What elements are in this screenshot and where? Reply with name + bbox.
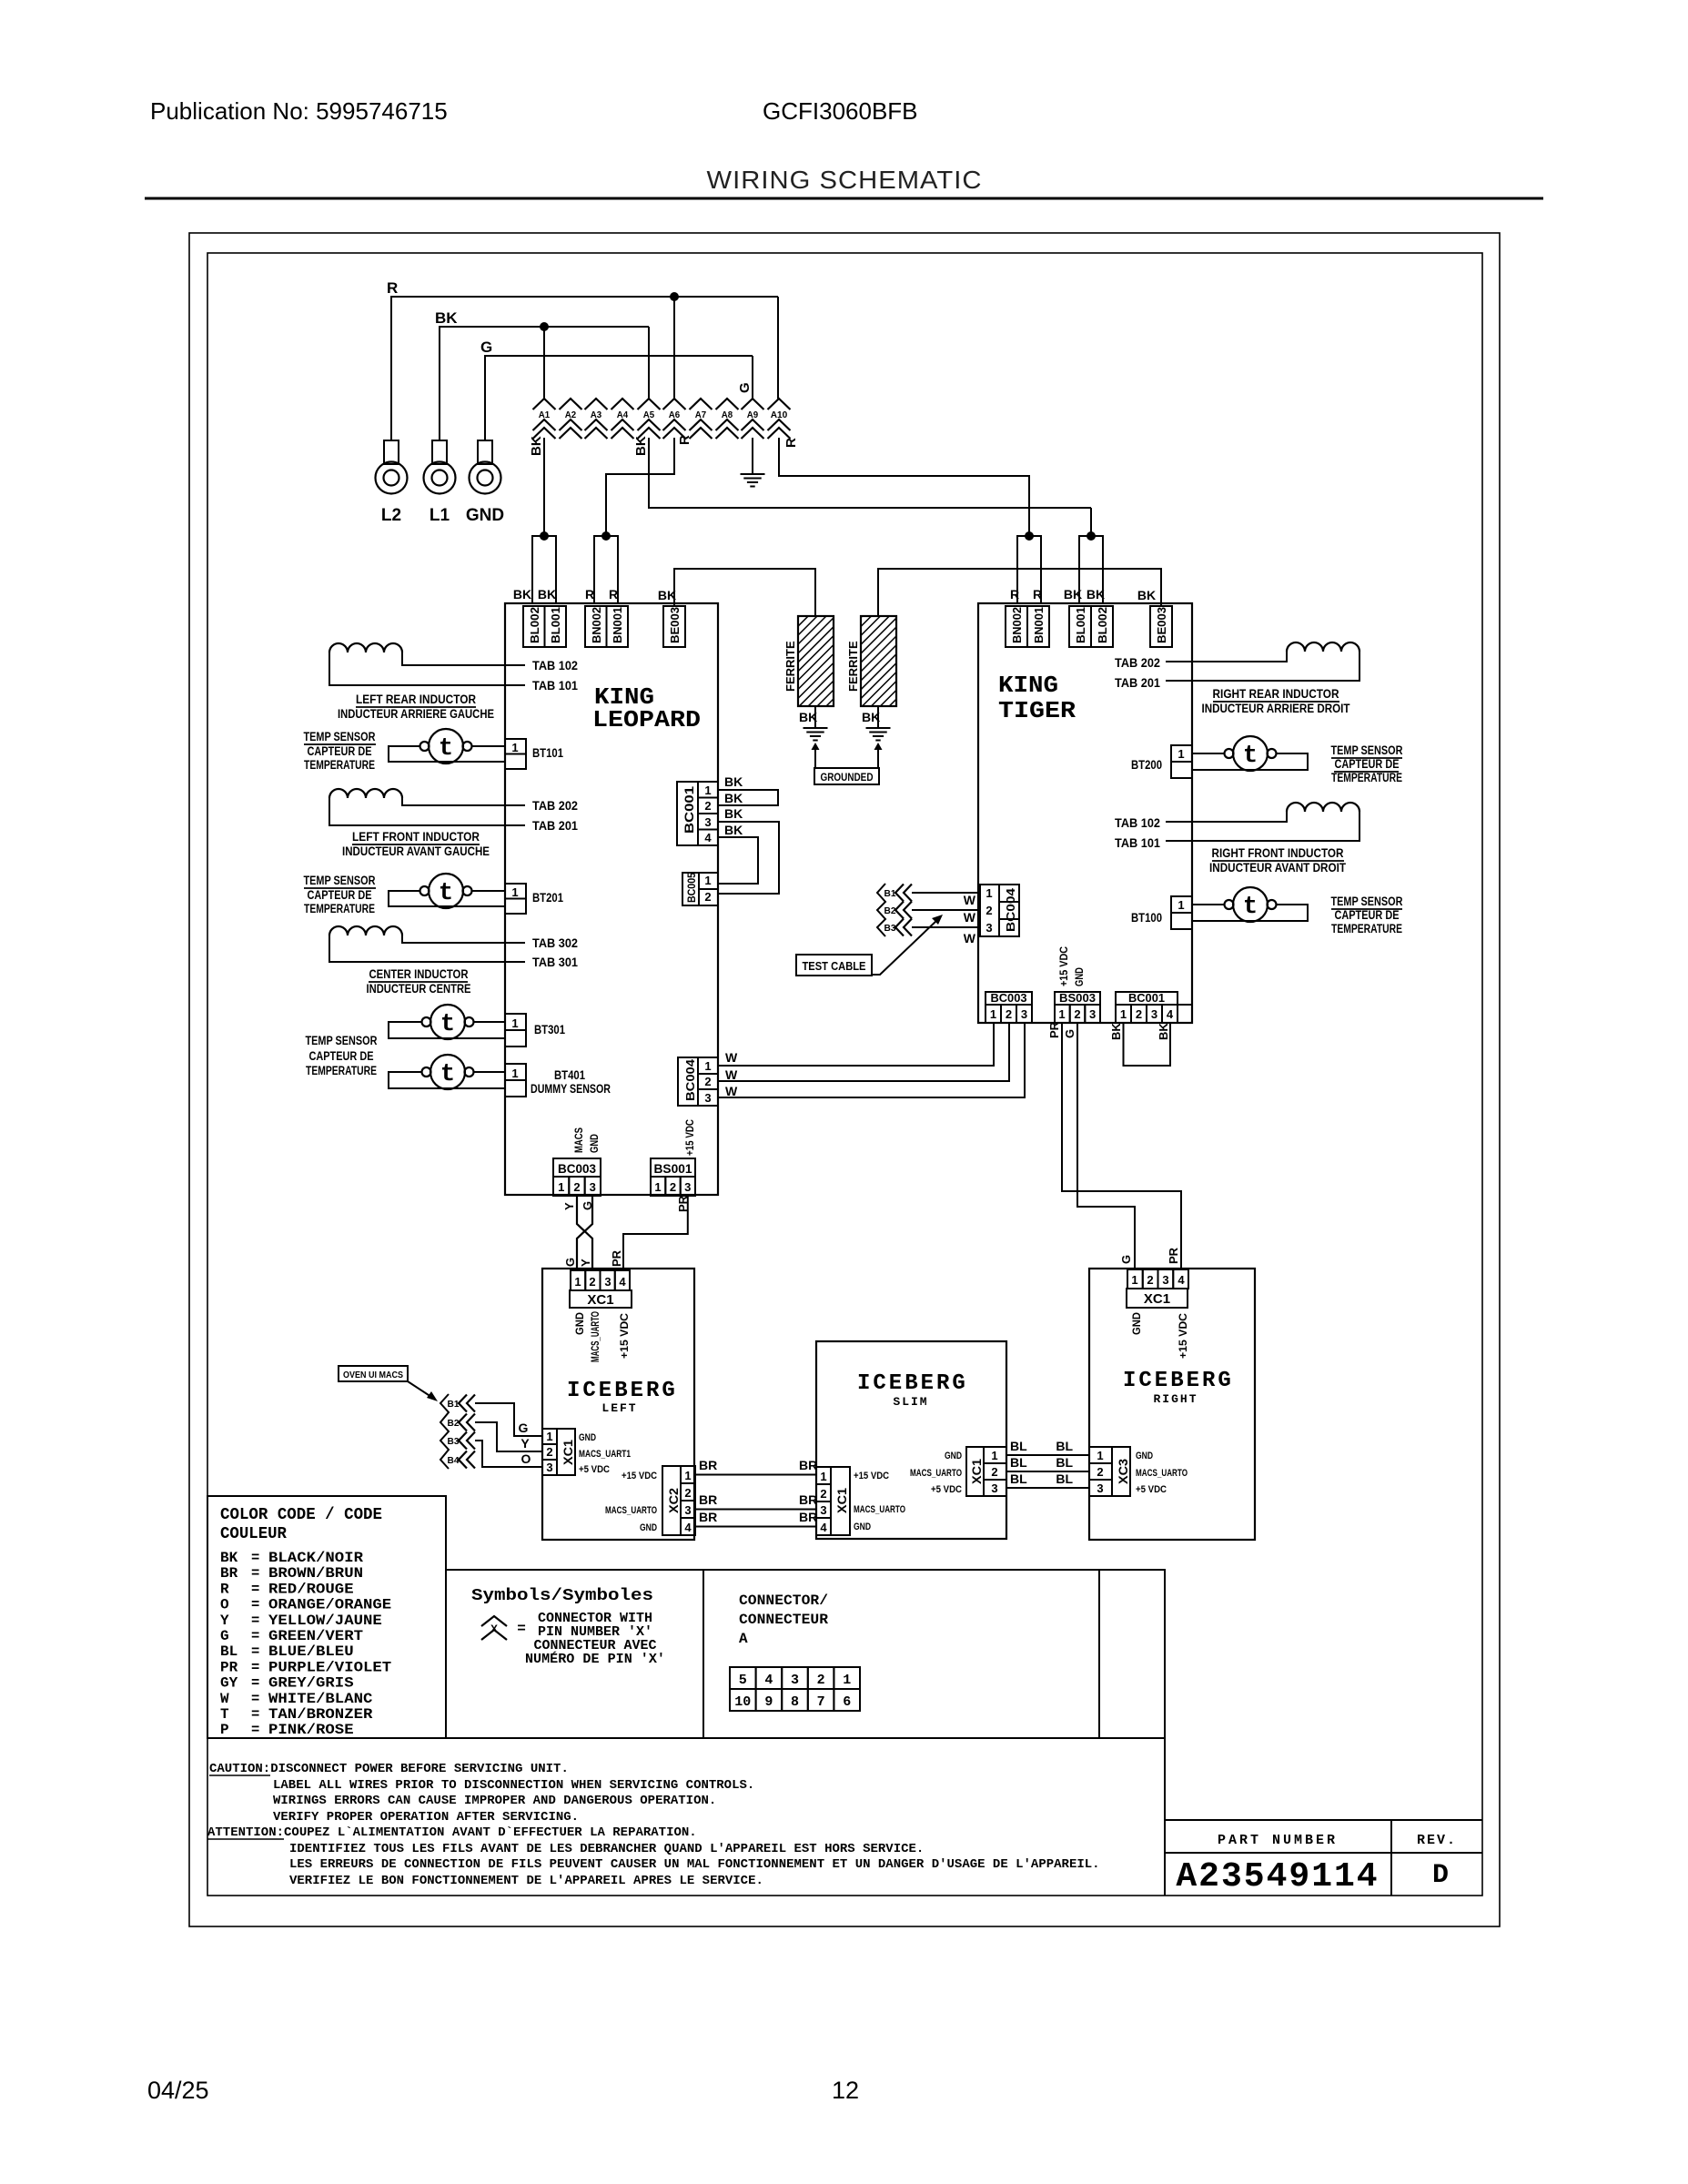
svg-text:BK: BK bbox=[1137, 588, 1156, 602]
svg-text:CONNECTOR WITH: CONNECTOR WITH bbox=[538, 1612, 652, 1626]
svg-text:GND: GND bbox=[1136, 1451, 1153, 1461]
svg-text:3: 3 bbox=[546, 1461, 552, 1474]
svg-text:BR: BR bbox=[799, 1510, 817, 1524]
svg-text:PART NUMBER: PART NUMBER bbox=[1218, 1833, 1338, 1848]
svg-text:=: = bbox=[251, 1722, 259, 1738]
svg-text:BC003: BC003 bbox=[991, 991, 1027, 1005]
connector A pin A4 bbox=[612, 399, 634, 409]
svg-text:B3: B3 bbox=[884, 923, 896, 934]
wire BC001 tiger pin1-pin4 loop bbox=[1124, 1023, 1171, 1066]
svg-text:MACS_UARTO: MACS_UARTO bbox=[605, 1505, 657, 1516]
svg-text:MACS_UART1: MACS_UART1 bbox=[579, 1449, 631, 1460]
node leopard BL bus junction bbox=[540, 531, 549, 541]
wire B2 to XC1.2 bbox=[475, 1422, 542, 1451]
svg-text:8: 8 bbox=[791, 1694, 799, 1710]
svg-text:BC001: BC001 bbox=[682, 786, 696, 834]
connector XC1 top iceberg left bbox=[571, 1270, 585, 1290]
svg-text:G: G bbox=[1119, 1255, 1133, 1264]
svg-text:TEMPERATURE: TEMPERATURE bbox=[304, 758, 375, 772]
svg-text:REV.: REV. bbox=[1417, 1833, 1457, 1848]
svg-text:LEFT: LEFT bbox=[601, 1401, 637, 1415]
connector BS003 tiger bbox=[1055, 992, 1100, 1005]
outer border frame bbox=[189, 233, 1500, 1926]
svg-text:XC1: XC1 bbox=[969, 1459, 984, 1484]
svg-text:CAPTEUR DE: CAPTEUR DE bbox=[309, 1049, 374, 1063]
svg-text:1: 1 bbox=[511, 885, 518, 899]
leopard BL bus bar bbox=[532, 536, 556, 603]
svg-text:TAB 102: TAB 102 bbox=[532, 658, 578, 672]
svg-text:LEFT FRONT INDUCTOR: LEFT FRONT INDUCTOR bbox=[352, 830, 480, 844]
svg-text:RED/ROUGE: RED/ROUGE bbox=[268, 1581, 354, 1597]
wire BR XC2.4 to slim XC1.4 bbox=[695, 1526, 816, 1528]
svg-text:1: 1 bbox=[986, 886, 992, 900]
wire PR BS001 to XC1 bbox=[623, 1196, 688, 1270]
svg-text:2: 2 bbox=[1147, 1273, 1153, 1287]
svg-text:LES ERREURS DE CONNECTION DE F: LES ERREURS DE CONNECTION DE FILS PEUVEN… bbox=[289, 1857, 1100, 1872]
svg-text:FERRITE: FERRITE bbox=[783, 641, 797, 692]
svg-text:XC2: XC2 bbox=[666, 1488, 681, 1513]
svg-text:TAN/BRONZER: TAN/BRONZER bbox=[268, 1706, 373, 1723]
wire sensor to BT100 pin2 bbox=[1192, 905, 1308, 921]
svg-text:BK: BK bbox=[724, 823, 743, 837]
connector XC3 iceberg right bbox=[1089, 1447, 1112, 1463]
svg-text:IDENTIFIEZ TOUS LES FILS AVANT: IDENTIFIEZ TOUS LES FILS AVANT DE LES DE… bbox=[289, 1842, 924, 1856]
svg-text:ATTENTION:COUPEZ L`ALIMENTATIO: ATTENTION:COUPEZ L`ALIMENTATION AVANT D`… bbox=[207, 1825, 697, 1840]
OVEN UI MACS label box bbox=[339, 1366, 408, 1381]
svg-text:MACS: MACS bbox=[572, 1127, 585, 1153]
svg-text:BL002: BL002 bbox=[1096, 607, 1109, 643]
svg-text:LABEL ALL WIRES PRIOR TO DISCO: LABEL ALL WIRES PRIOR TO DISCONNECTION W… bbox=[273, 1778, 754, 1793]
wire BL slim.3 to XC3.3 bbox=[1006, 1487, 1089, 1489]
svg-text:DUMMY SENSOR: DUMMY SENSOR bbox=[531, 1081, 611, 1096]
svg-text:1: 1 bbox=[511, 1016, 518, 1030]
connector A box bbox=[703, 1570, 1099, 1738]
connector tiger BN002/BN001 cells bbox=[1006, 606, 1027, 647]
svg-text:B4: B4 bbox=[448, 1455, 460, 1466]
svg-text:W: W bbox=[220, 1691, 229, 1707]
svg-text:4: 4 bbox=[684, 1521, 692, 1534]
svg-text:BN002: BN002 bbox=[590, 607, 603, 643]
svg-text:BK: BK bbox=[529, 436, 544, 456]
wire sensor to BT301 pin2 bbox=[389, 1022, 505, 1038]
svg-text:G: G bbox=[1063, 1029, 1076, 1038]
svg-text:TIGER: TIGER bbox=[998, 697, 1076, 724]
temp sensor BT200 symbol bbox=[1233, 736, 1268, 771]
svg-text:CONNECTOR/: CONNECTOR/ bbox=[739, 1592, 828, 1609]
connector A pin A9 bbox=[742, 399, 764, 409]
svg-text:=: = bbox=[251, 1550, 259, 1566]
wire B3 to XC1.3 bbox=[475, 1441, 542, 1467]
svg-text:+15 VDC: +15 VDC bbox=[1057, 946, 1070, 986]
wire G BS003 to iceberg right XC1.1 bbox=[1077, 1023, 1135, 1269]
svg-text:1: 1 bbox=[704, 874, 711, 887]
ICEBERG LEFT module box bbox=[542, 1269, 694, 1540]
svg-text:BN002: BN002 bbox=[1010, 607, 1024, 643]
connector BE003 leopard cell bbox=[663, 606, 685, 647]
node tiger BL bus junction bbox=[1087, 531, 1096, 541]
svg-text:XC1: XC1 bbox=[561, 1440, 575, 1465]
svg-text:W: W bbox=[964, 931, 976, 945]
svg-text:INDUCTEUR AVANT DROIT: INDUCTEUR AVANT DROIT bbox=[1209, 861, 1347, 875]
svg-text:GCFI3060BFB: GCFI3060BFB bbox=[763, 97, 918, 125]
wire G from GND bbox=[485, 356, 753, 440]
svg-text:BS001: BS001 bbox=[654, 1161, 692, 1176]
svg-text:1: 1 bbox=[546, 1430, 552, 1443]
svg-text:BE003: BE003 bbox=[668, 607, 682, 643]
svg-text:B2: B2 bbox=[448, 1418, 460, 1429]
svg-text:R: R bbox=[1010, 587, 1019, 602]
KING LEOPARD module box bbox=[505, 603, 718, 1195]
svg-text:XC1: XC1 bbox=[834, 1488, 849, 1513]
svg-text:BL: BL bbox=[1056, 1455, 1073, 1470]
svg-text:2: 2 bbox=[1136, 1007, 1142, 1021]
svg-text:R: R bbox=[1033, 587, 1042, 602]
node R-A6 junction bbox=[670, 292, 679, 301]
svg-text:T: T bbox=[220, 1706, 229, 1723]
svg-text:BL001: BL001 bbox=[549, 607, 562, 643]
svg-text:INDUCTEUR AVANT GAUCHE: INDUCTEUR AVANT GAUCHE bbox=[342, 844, 490, 858]
connector A pin A7 bbox=[690, 399, 713, 409]
TEST CABLE arrow bbox=[872, 919, 938, 975]
svg-text:W: W bbox=[725, 1084, 738, 1098]
svg-text:1: 1 bbox=[1097, 1449, 1103, 1462]
svg-text:GND: GND bbox=[1130, 1312, 1143, 1335]
connector BT301 cells bbox=[505, 1014, 526, 1030]
svg-text:G: G bbox=[220, 1628, 229, 1644]
svg-text:1: 1 bbox=[511, 741, 518, 754]
wire sensor to BT101 pin1 bbox=[472, 745, 506, 747]
svg-text:2: 2 bbox=[573, 1180, 580, 1194]
svg-text:LEOPARD: LEOPARD bbox=[592, 706, 701, 733]
connector BC001 tiger bbox=[1116, 992, 1178, 1005]
inductor left rear coil bbox=[329, 643, 402, 652]
svg-text:BK: BK bbox=[633, 436, 649, 456]
svg-text:1: 1 bbox=[991, 1449, 997, 1462]
svg-text:GND: GND bbox=[579, 1432, 596, 1443]
wire A10 top bbox=[777, 297, 779, 399]
svg-text:XC1: XC1 bbox=[587, 1292, 613, 1308]
svg-text:5: 5 bbox=[739, 1673, 747, 1688]
svg-text:PURPLE/VIOLET: PURPLE/VIOLET bbox=[268, 1659, 391, 1675]
svg-text:+5 VDC: +5 VDC bbox=[579, 1464, 610, 1475]
svg-text:BL001: BL001 bbox=[1074, 607, 1087, 643]
svg-text:YELLOW/JAUNE: YELLOW/JAUNE bbox=[268, 1613, 382, 1629]
svg-text:1: 1 bbox=[820, 1470, 826, 1483]
svg-text:CAUTION:DISCONNECT POWER BEFOR: CAUTION:DISCONNECT POWER BEFORE SERVICIN… bbox=[209, 1762, 569, 1776]
svg-text:CAPTEUR DE: CAPTEUR DE bbox=[1335, 908, 1400, 922]
svg-text:GREEN/VERT: GREEN/VERT bbox=[268, 1628, 363, 1644]
svg-text:2: 2 bbox=[1074, 1007, 1080, 1021]
wire A9 top bbox=[752, 356, 753, 399]
svg-text:R: R bbox=[220, 1581, 229, 1597]
svg-text:=: = bbox=[251, 1706, 259, 1723]
svg-text:BN001: BN001 bbox=[1032, 607, 1046, 643]
svg-text:SLIM: SLIM bbox=[893, 1395, 928, 1409]
svg-text:2: 2 bbox=[589, 1275, 595, 1289]
svg-text:Symbols/Symboles: Symbols/Symboles bbox=[471, 1587, 653, 1605]
temp sensor BT401 symbol bbox=[430, 1055, 465, 1089]
svg-text:3: 3 bbox=[684, 1503, 691, 1517]
svg-text:GND: GND bbox=[1073, 967, 1086, 986]
wire Y crossing bbox=[577, 1196, 592, 1270]
svg-text:COLOR CODE / CODE: COLOR CODE / CODE bbox=[220, 1506, 382, 1524]
svg-text:TEMP SENSOR: TEMP SENSOR bbox=[1331, 743, 1403, 757]
wire BE003 leopard to ferrite F1 bbox=[674, 569, 815, 616]
svg-text:VERIFY PROPER OPERATION AFTER: VERIFY PROPER OPERATION AFTER SERVICING. bbox=[273, 1810, 579, 1825]
svg-text:VERIFIEZ LE BON FONCTIONNEMENT: VERIFIEZ LE BON FONCTIONNEMENT DE L'APPA… bbox=[289, 1874, 763, 1888]
svg-text:3: 3 bbox=[1162, 1273, 1168, 1287]
svg-text:CAPTEUR DE: CAPTEUR DE bbox=[1335, 757, 1400, 771]
svg-text:BK: BK bbox=[435, 309, 458, 327]
connector A pin A6 bbox=[663, 399, 686, 409]
svg-text:BR: BR bbox=[799, 1492, 817, 1507]
svg-text:Y: Y bbox=[521, 1436, 530, 1451]
svg-text:INDUCTEUR ARRIERE DROIT: INDUCTEUR ARRIERE DROIT bbox=[1202, 702, 1351, 715]
svg-text:=: = bbox=[251, 1628, 259, 1644]
TEST CABLE label box bbox=[796, 955, 872, 976]
wire sensor to BT401 pin2 bbox=[389, 1072, 505, 1088]
svg-text:2: 2 bbox=[820, 1487, 826, 1501]
svg-text:=: = bbox=[251, 1581, 259, 1597]
svg-text:3: 3 bbox=[791, 1673, 799, 1688]
svg-text:t: t bbox=[440, 1061, 455, 1088]
wire BC001 pin4 to BC005 pin1 bbox=[718, 837, 758, 884]
wire sensor to BT101 pin2 bbox=[389, 746, 505, 762]
inductor right rear coil bbox=[1287, 642, 1359, 652]
svg-text:BC005: BC005 bbox=[685, 873, 698, 903]
svg-text:Y: Y bbox=[562, 1202, 576, 1210]
svg-text:9: 9 bbox=[764, 1694, 773, 1710]
svg-text:4: 4 bbox=[704, 831, 712, 844]
svg-text:BC004: BC004 bbox=[1004, 887, 1017, 932]
connector tiger BL001/BL002 cells bbox=[1069, 606, 1091, 647]
svg-text:BK: BK bbox=[724, 774, 743, 789]
inductor left front coil bbox=[329, 789, 402, 798]
svg-text:3: 3 bbox=[684, 1180, 691, 1194]
connector A pin table bbox=[730, 1667, 756, 1689]
svg-text:GROUNDED: GROUNDED bbox=[821, 773, 874, 784]
header rule bbox=[145, 197, 1543, 200]
connector BC004 leopard bbox=[678, 1057, 698, 1106]
svg-text:7: 7 bbox=[817, 1694, 825, 1710]
wire sensor to BT301 pin1 bbox=[474, 1021, 506, 1023]
wire left front inductor to TAB 201 bbox=[329, 798, 525, 825]
svg-text:GREY/GRIS: GREY/GRIS bbox=[268, 1675, 354, 1692]
connector BN002/BN001 cells bbox=[585, 606, 607, 647]
wire PR BS003 to iceberg right XC1.4 bbox=[1062, 1023, 1181, 1269]
connector BT100 cells bbox=[1171, 896, 1192, 913]
svg-text:3: 3 bbox=[604, 1275, 611, 1289]
svg-text:Y: Y bbox=[220, 1613, 229, 1629]
connector BC001 leopard bbox=[677, 782, 698, 845]
symbols box bbox=[446, 1570, 703, 1738]
connector BT101 cells bbox=[505, 739, 526, 754]
svg-text:BLUE/BLEU: BLUE/BLEU bbox=[268, 1643, 354, 1660]
ring terminal L2 bbox=[376, 462, 408, 494]
svg-text:GND: GND bbox=[640, 1522, 657, 1533]
svg-text:2: 2 bbox=[546, 1445, 552, 1459]
svg-text:B3: B3 bbox=[448, 1436, 460, 1447]
svg-text:GND: GND bbox=[466, 506, 504, 525]
svg-text:BK: BK bbox=[1157, 1023, 1170, 1040]
ferrite F2 bbox=[861, 616, 896, 706]
svg-text:BS003: BS003 bbox=[1059, 991, 1096, 1005]
svg-text:TAB 302: TAB 302 bbox=[532, 935, 578, 950]
svg-text:MACS_UARTO: MACS_UARTO bbox=[589, 1311, 601, 1362]
svg-text:D: D bbox=[1432, 1860, 1449, 1891]
svg-text:=: = bbox=[251, 1659, 259, 1675]
svg-text:+15 VDC: +15 VDC bbox=[683, 1119, 696, 1156]
svg-text:2: 2 bbox=[704, 799, 711, 813]
svg-text:2: 2 bbox=[991, 1465, 997, 1479]
svg-text:CONNECTEUR AVEC: CONNECTEUR AVEC bbox=[534, 1639, 657, 1653]
arrow up F2 bbox=[874, 743, 883, 750]
wire right front inductor TAB 102 bbox=[1166, 812, 1287, 822]
wire left rear inductor to TAB 101 bbox=[329, 652, 525, 685]
svg-text:W: W bbox=[725, 1067, 738, 1082]
wire BK from L1 bbox=[440, 327, 649, 440]
svg-text:3: 3 bbox=[1089, 1007, 1096, 1021]
svg-text:=: = bbox=[251, 1597, 259, 1613]
svg-text:1: 1 bbox=[574, 1275, 581, 1289]
svg-text:3: 3 bbox=[986, 921, 992, 935]
ICEBERG RIGHT module box bbox=[1089, 1269, 1255, 1540]
wire A9 to ground bbox=[752, 438, 753, 473]
svg-text:GY: GY bbox=[220, 1675, 238, 1692]
svg-text:LEFT REAR INDUCTOR: LEFT REAR INDUCTOR bbox=[356, 693, 476, 706]
svg-text:WHITE/BLANC: WHITE/BLANC bbox=[268, 1691, 372, 1707]
svg-text:2: 2 bbox=[704, 890, 711, 904]
svg-text:3: 3 bbox=[820, 1503, 826, 1517]
svg-text:ICEBERG: ICEBERG bbox=[567, 1379, 678, 1403]
svg-text:BL: BL bbox=[1010, 1471, 1027, 1486]
svg-text:Publication No: 5995746715: Publication No: 5995746715 bbox=[150, 97, 448, 125]
svg-text:TAB 201: TAB 201 bbox=[1115, 675, 1160, 690]
connector A pin A1 bbox=[533, 399, 556, 409]
svg-text:W: W bbox=[725, 1050, 738, 1065]
svg-text:BK: BK bbox=[1109, 1023, 1123, 1040]
svg-text:GND: GND bbox=[573, 1312, 586, 1335]
svg-text:BR: BR bbox=[799, 1458, 817, 1472]
svg-text:3: 3 bbox=[704, 1091, 711, 1105]
wire BR XC2.1 to slim XC1.1 bbox=[695, 1474, 816, 1476]
svg-text:t: t bbox=[1243, 743, 1258, 770]
wire sensor to BT401 pin1 bbox=[474, 1071, 506, 1073]
svg-text:ORANGE/ORANGE: ORANGE/ORANGE bbox=[268, 1597, 391, 1613]
connector BL002/BL001 cells bbox=[523, 606, 545, 647]
svg-text:L1: L1 bbox=[430, 506, 450, 525]
svg-text:BT200: BT200 bbox=[1131, 757, 1162, 772]
svg-text:2: 2 bbox=[986, 904, 992, 917]
svg-text:BR: BR bbox=[220, 1565, 238, 1582]
wire center inductor to TAB 302 bbox=[402, 935, 525, 943]
ground symbol below A9 bbox=[741, 473, 765, 475]
wire A1 to leopard BL bus bbox=[543, 438, 545, 536]
wire BL slim.1 to XC3.1 bbox=[1006, 1454, 1089, 1456]
svg-text:1: 1 bbox=[654, 1180, 661, 1194]
wire center inductor to TAB 301 bbox=[329, 935, 525, 962]
svg-text:2: 2 bbox=[1006, 1007, 1012, 1021]
svg-text:B1: B1 bbox=[448, 1399, 460, 1410]
svg-text:6: 6 bbox=[843, 1694, 851, 1710]
wire sensor to BT201 pin2 bbox=[389, 891, 505, 906]
svg-text:TAB 102: TAB 102 bbox=[1115, 815, 1160, 830]
svg-text:+15 VDC: +15 VDC bbox=[1177, 1313, 1189, 1359]
inductor center coil bbox=[329, 926, 402, 935]
svg-text:ICEBERG: ICEBERG bbox=[857, 1371, 968, 1396]
svg-text:+5 VDC: +5 VDC bbox=[931, 1484, 962, 1495]
svg-text:PINK/ROSE: PINK/ROSE bbox=[268, 1722, 354, 1738]
svg-text:INDUCTEUR CENTRE: INDUCTEUR CENTRE bbox=[367, 982, 471, 996]
wire sensor to BT100 pin1 bbox=[1192, 904, 1225, 905]
svg-text:1: 1 bbox=[511, 1067, 518, 1080]
wire B1 to tiger BC004.1 bbox=[912, 892, 980, 894]
oven ui zigzag B1-B4 bbox=[440, 1394, 449, 1469]
GROUNDED label box bbox=[814, 768, 879, 784]
svg-text:t: t bbox=[439, 735, 453, 763]
wire right rear inductor TAB 201 bbox=[1166, 652, 1359, 681]
connector XC1 slim right bbox=[966, 1447, 984, 1496]
svg-text:OVEN UI MACS: OVEN UI MACS bbox=[343, 1370, 403, 1380]
svg-text:4: 4 bbox=[619, 1275, 626, 1289]
svg-text:BK: BK bbox=[724, 806, 743, 821]
svg-text:BLACK/NOIR: BLACK/NOIR bbox=[268, 1550, 364, 1566]
svg-text:TEMP SENSOR: TEMP SENSOR bbox=[306, 1034, 378, 1047]
svg-text:PR: PR bbox=[1047, 1021, 1061, 1038]
svg-text:1: 1 bbox=[843, 1673, 851, 1688]
svg-text:BK: BK bbox=[513, 587, 531, 602]
ground symbol under F2 bbox=[866, 727, 891, 729]
strip divider small box bbox=[1099, 1570, 1165, 1738]
svg-text:BL: BL bbox=[1056, 1471, 1073, 1486]
leopard BN bus bar bbox=[594, 536, 618, 603]
svg-text:+5 VDC: +5 VDC bbox=[1136, 1484, 1167, 1495]
svg-text:R: R bbox=[585, 587, 594, 602]
svg-text:A23549114: A23549114 bbox=[1176, 1857, 1379, 1896]
svg-text:WIRING SCHEMATIC: WIRING SCHEMATIC bbox=[707, 166, 983, 194]
svg-text:MACS_UARTO: MACS_UARTO bbox=[910, 1468, 962, 1479]
wire A5 to tiger BL bus bbox=[649, 438, 1091, 508]
wire A6 top bbox=[673, 297, 675, 399]
svg-text:+15 VDC: +15 VDC bbox=[618, 1313, 631, 1359]
svg-text:BT201: BT201 bbox=[532, 890, 563, 905]
svg-text:NUMÉRO DE PIN 'X': NUMÉRO DE PIN 'X' bbox=[525, 1651, 665, 1667]
svg-text:1: 1 bbox=[1178, 898, 1184, 912]
svg-text:BK: BK bbox=[1064, 587, 1082, 602]
svg-text:FERRITE: FERRITE bbox=[846, 641, 860, 692]
connector BT201 cells bbox=[505, 884, 526, 899]
svg-text:2: 2 bbox=[670, 1180, 676, 1194]
OVEN UI MACS arrow bbox=[408, 1381, 431, 1397]
svg-text:BK: BK bbox=[220, 1550, 238, 1566]
temp sensor BT100 symbol bbox=[1233, 887, 1268, 922]
svg-text:BR: BR bbox=[699, 1458, 717, 1472]
node tiger BN bus junction bbox=[1025, 531, 1034, 541]
svg-text:=: = bbox=[517, 1621, 526, 1637]
svg-text:BL: BL bbox=[1010, 1455, 1027, 1470]
wire A6 to leopard BN bus bbox=[606, 438, 674, 536]
svg-text:TEMPERATURE: TEMPERATURE bbox=[1331, 922, 1402, 935]
svg-text:2: 2 bbox=[704, 1075, 711, 1088]
connector A pin A3 bbox=[585, 399, 608, 409]
svg-text:TAB 201: TAB 201 bbox=[532, 818, 578, 833]
connector BC003 tiger bbox=[986, 992, 1032, 1005]
connector BC003 leopard bbox=[553, 1158, 601, 1177]
svg-text:=: = bbox=[251, 1691, 259, 1707]
svg-text:PR: PR bbox=[220, 1659, 238, 1675]
svg-text:TAB 202: TAB 202 bbox=[532, 798, 578, 813]
temp sensor BT301 symbol bbox=[430, 1005, 465, 1039]
